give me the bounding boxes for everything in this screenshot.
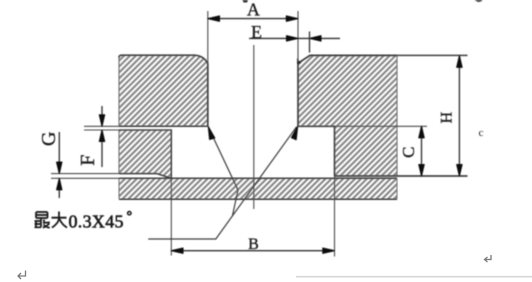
tiny cut glyph top-right [475, 0, 483, 2]
dimension H line with arrows [458, 56, 460, 176]
degree mark [128, 212, 131, 215]
dimension B line with arrows [171, 250, 334, 252]
svg-text:G: G [38, 132, 60, 146]
svg-text:A: A [247, 0, 260, 19]
dimension E tick [309, 32, 311, 53]
top surface extension to H [397, 54, 468, 56]
paragraph mark right [485, 255, 492, 262]
dimension C line with arrows [421, 126, 423, 176]
dimension E line [249, 37, 340, 39]
leader line to right chamfer corner [148, 127, 296, 239]
dimension G arrows (outside) [58, 132, 60, 174]
hatched block middle-left [0, 0, 351, 282]
C extension line [298, 125, 427, 127]
svg-text:F: F [77, 155, 99, 166]
paragraph mark bottom-left [18, 271, 26, 280]
svg-text:C: C [399, 147, 418, 158]
centerline [253, 45, 255, 209]
dimension A extension lines [207, 11, 209, 64]
leader line to left chamfer corner [208, 127, 238, 216]
note text 最大 (drawn glyphs) [35, 212, 50, 228]
hatched block upper-left [0, 0, 333, 282]
F extension lines [84, 125, 119, 127]
svg-text:0.3X45: 0.3X45 [69, 211, 124, 231]
svg-text:c: c [479, 127, 484, 139]
dimension F arrows (outside) [101, 106, 103, 126]
dimension A line with arrows [208, 18, 298, 20]
faint page rule line [296, 276, 532, 278]
chamfer corner mark [297, 58, 301, 64]
svg-text:E: E [251, 22, 262, 42]
B extension lines [170, 178, 172, 255]
svg-text:B: B [248, 236, 259, 253]
svg-text:H: H [439, 111, 456, 123]
bottom leg extension to H [335, 175, 468, 177]
tiny cut glyph above A [243, 0, 249, 3]
G extension lines [51, 173, 119, 175]
